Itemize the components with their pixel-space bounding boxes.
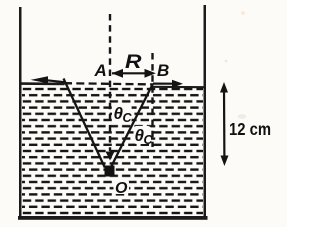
water surface solid segment right: [152, 86, 204, 89]
R measurement double arrow between A and B: [112, 72, 152, 74]
dashed normal line through A and O: [109, 14, 111, 151]
water surface solid segment left: [20, 82, 65, 85]
dashed normal line below B: [151, 53, 153, 147]
refracted ray grazing left from exit point: [46, 80, 65, 82]
arrowhead of left grazing ray: [31, 76, 49, 83]
arrowhead of right grazing ray: [172, 80, 183, 88]
tank right wall: [204, 5, 207, 219]
svg-text:R: R: [125, 52, 142, 73]
incident ray O to left surface point: [64, 79, 105, 168]
scan smudge above 12cm: [238, 114, 247, 118]
svg-text:12 cm: 12 cm: [229, 119, 271, 139]
white halo under O label: [114, 179, 130, 194]
water hatching: [22, 86, 203, 216]
white halo under theta2 label: [134, 126, 152, 144]
12 cm depth dimension arrow: [223, 88, 226, 160]
svg-text:C: C: [123, 111, 133, 125]
svg-text:C: C: [144, 133, 154, 147]
refracted ray grazing right from B: [153, 82, 173, 84]
water surface dashed segment: [64, 83, 152, 84]
light source O square: [105, 166, 115, 177]
tank left wall: [19, 7, 22, 219]
tank bottom: [18, 216, 208, 220]
svg-text:O: O: [115, 180, 128, 197]
svg-text:A: A: [94, 61, 107, 80]
scan speck top right: [241, 11, 245, 15]
arrowhead on normal pointing down to O: [106, 152, 115, 161]
scan speck right: [225, 60, 228, 63]
incident ray O to B: [111, 84, 154, 169]
svg-text:B: B: [157, 61, 169, 80]
white halo under theta1 label: [112, 104, 132, 123]
